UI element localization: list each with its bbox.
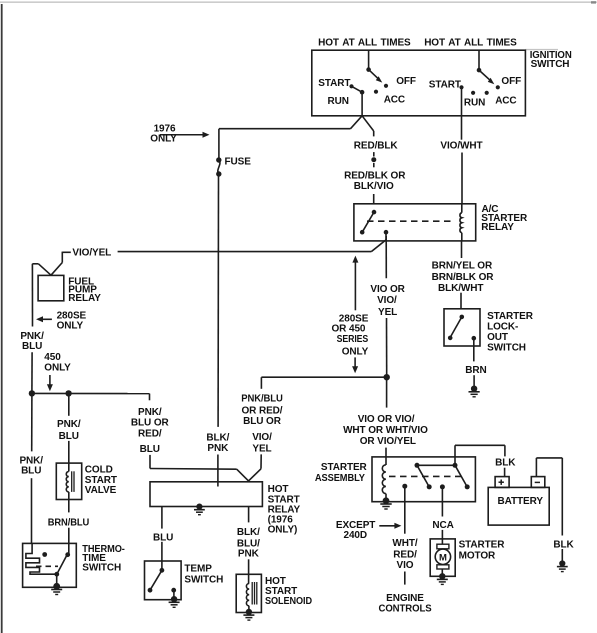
svg-text:PNK/: PNK/ xyxy=(138,407,162,418)
svg-text:BLK/WHT: BLK/WHT xyxy=(438,283,483,294)
svg-text:ONLY: ONLY xyxy=(342,347,369,358)
svg-text:RED/: RED/ xyxy=(138,429,162,440)
svg-text:BLU: BLU xyxy=(153,533,173,544)
svg-text:450: 450 xyxy=(44,352,61,363)
svg-text:BRN/BLK OR: BRN/BLK OR xyxy=(432,272,495,283)
svg-text:BLK/: BLK/ xyxy=(237,527,260,538)
svg-text:NCA: NCA xyxy=(432,520,453,531)
svg-text:ASSEMBLY: ASSEMBLY xyxy=(315,473,365,484)
svg-text:BLU OR: BLU OR xyxy=(243,416,282,427)
svg-text:PNK/: PNK/ xyxy=(20,331,44,342)
svg-text:WHT/: WHT/ xyxy=(392,538,417,549)
svg-text:PNK/: PNK/ xyxy=(57,419,81,430)
svg-text:BLK: BLK xyxy=(495,458,516,469)
svg-text:START: START xyxy=(318,78,350,89)
svg-text:RED/: RED/ xyxy=(393,549,417,560)
svg-text:VIO/: VIO/ xyxy=(377,295,397,306)
svg-text:PNK: PNK xyxy=(238,548,260,559)
svg-text:SWITCH: SWITCH xyxy=(531,59,570,70)
svg-text:ACC: ACC xyxy=(495,96,516,107)
svg-text:STARTER: STARTER xyxy=(487,311,534,322)
svg-text:YEL: YEL xyxy=(378,307,397,318)
svg-text:BRN/YEL OR: BRN/YEL OR xyxy=(432,261,493,272)
svg-text:RUN: RUN xyxy=(328,96,349,107)
svg-text:RED/BLK OR: RED/BLK OR xyxy=(344,171,406,182)
svg-text:RUN: RUN xyxy=(464,97,485,108)
svg-text:MOTOR: MOTOR xyxy=(459,550,496,561)
svg-text:BRN: BRN xyxy=(465,365,486,376)
svg-text:HOT AT ALL TIMES: HOT AT ALL TIMES xyxy=(318,38,411,49)
svg-text:OR RED/: OR RED/ xyxy=(242,405,283,416)
svg-text:RED/BLK: RED/BLK xyxy=(354,140,399,151)
svg-text:PNK: PNK xyxy=(207,443,229,454)
svg-text:VIO/: VIO/ xyxy=(252,432,272,443)
svg-text:VIO/WHT: VIO/WHT xyxy=(440,141,482,152)
svg-text:BRN/BLU: BRN/BLU xyxy=(48,518,89,529)
svg-text:HOT: HOT xyxy=(268,484,289,495)
svg-text:PNK/BLU: PNK/BLU xyxy=(241,394,283,405)
svg-text:BLK: BLK xyxy=(553,540,574,551)
svg-text:OFF: OFF xyxy=(396,76,416,87)
svg-text:FUSE: FUSE xyxy=(225,156,252,167)
svg-text:M: M xyxy=(439,552,447,563)
svg-text:OR 450: OR 450 xyxy=(332,324,366,335)
svg-text:CONTROLS: CONTROLS xyxy=(379,604,432,615)
svg-text:OUT: OUT xyxy=(487,332,508,343)
svg-text:VIO OR: VIO OR xyxy=(370,284,405,295)
svg-text:BLK/: BLK/ xyxy=(206,432,229,443)
svg-text:OFF: OFF xyxy=(501,76,521,87)
svg-text:SOLENOID: SOLENOID xyxy=(265,596,312,607)
svg-text:BLU: BLU xyxy=(21,466,41,477)
svg-text:BLU: BLU xyxy=(59,431,79,442)
svg-text:ONLY): ONLY) xyxy=(268,524,298,535)
svg-text:BLU: BLU xyxy=(140,444,160,455)
svg-text:BLU OR: BLU OR xyxy=(131,418,170,429)
svg-text:VALVE: VALVE xyxy=(85,485,117,496)
svg-text:WHT OR WHT/VIO: WHT OR WHT/VIO xyxy=(343,425,428,436)
svg-text:ONLY: ONLY xyxy=(57,320,84,331)
svg-text:VIO: VIO xyxy=(397,560,414,571)
svg-text:ACC: ACC xyxy=(384,95,405,106)
svg-text:HOT AT ALL TIMES: HOT AT ALL TIMES xyxy=(424,38,517,49)
svg-text:RELAY: RELAY xyxy=(481,222,514,233)
svg-text:SWITCH: SWITCH xyxy=(487,342,526,353)
svg-text:VIO/YEL: VIO/YEL xyxy=(72,247,111,258)
svg-text:YEL: YEL xyxy=(252,444,271,455)
svg-text:SWITCH: SWITCH xyxy=(82,563,121,574)
svg-text:OR VIO/YEL: OR VIO/YEL xyxy=(360,436,416,447)
svg-text:BLK/VIO: BLK/VIO xyxy=(354,181,394,192)
svg-text:STARTER: STARTER xyxy=(321,462,368,473)
svg-text:SERIES: SERIES xyxy=(337,334,369,345)
svg-text:TEMP: TEMP xyxy=(184,563,212,574)
svg-text:RELAY: RELAY xyxy=(68,293,101,304)
svg-text:VIO OR VIO/: VIO OR VIO/ xyxy=(358,414,415,425)
svg-text:BATTERY: BATTERY xyxy=(498,496,544,507)
svg-text:SWITCH: SWITCH xyxy=(184,574,223,585)
svg-text:ONLY: ONLY xyxy=(150,133,177,144)
svg-text:240D: 240D xyxy=(344,530,368,541)
svg-text:START: START xyxy=(429,80,461,91)
svg-text:ONLY: ONLY xyxy=(44,362,71,373)
svg-text:STARTER: STARTER xyxy=(459,539,506,550)
svg-text:BLU: BLU xyxy=(22,341,42,352)
